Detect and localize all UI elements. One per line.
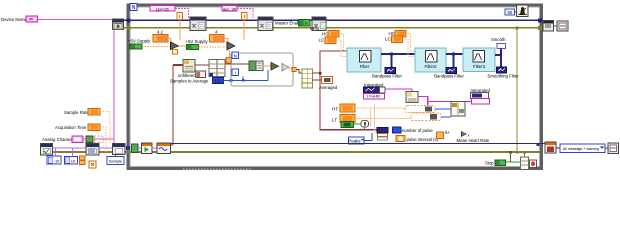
junction samples wire <box>242 79 245 82</box>
svg-text:10: 10 <box>71 158 76 163</box>
wire supply1 to select1 <box>142 46 171 48</box>
bottom border label dots <box>183 168 251 170</box>
wire error cluster (top) <box>124 27 541 29</box>
constant max value (blue box) <box>65 157 78 165</box>
svg-text:Filter3: Filter3 <box>473 64 486 69</box>
string constant 2 (pink) <box>222 6 237 12</box>
constant 4 (orange) <box>210 35 225 43</box>
function reciprocal glyphs <box>445 130 470 138</box>
svg-text:N: N <box>234 54 237 59</box>
constant LC2 (orange) <box>392 36 403 43</box>
wire sample clock up <box>115 155 117 157</box>
function bundle (rows) <box>302 69 313 88</box>
control Stop (green TF) <box>495 160 506 166</box>
svg-text:i: i <box>235 71 236 76</box>
constant 60 (orange) <box>437 132 444 139</box>
wire green to start <box>138 147 142 149</box>
wire maxmin to integrated2 <box>465 101 472 103</box>
wire ring to handler <box>605 147 608 149</box>
svg-text:number of pulse: number of pulse <box>402 128 433 133</box>
svg-text:Filter: Filter <box>360 64 370 69</box>
function add (triangle) <box>271 63 279 71</box>
wire VISA resource (top) <box>124 19 541 21</box>
svg-text:unfiltered: unfiltered <box>178 73 196 78</box>
svg-text:All message + warning: All message + warning <box>563 147 599 151</box>
loop i terminal (inner) <box>232 69 239 76</box>
wire stop to or <box>506 161 521 163</box>
wire task 1 <box>53 147 87 149</box>
wire task 2 <box>99 147 113 149</box>
indicator unfiltered <box>196 71 206 78</box>
function peak detect <box>406 92 418 103</box>
wire analog channel pink <box>83 138 114 140</box>
subVI VISA write 2 <box>258 17 273 31</box>
express VI Filter (bandpass 1) <box>347 48 381 72</box>
svg-text:Sample: Sample <box>109 158 123 163</box>
wire waveform horizontal to scaling icon <box>173 64 183 66</box>
wire samples branch in loop <box>267 70 269 80</box>
svg-text:132: 132 <box>214 78 222 83</box>
svg-text:Peaks: Peaks <box>348 138 361 143</box>
function divide (pale triangle) <box>282 64 289 72</box>
subVI simple error handler (bottom right) <box>608 143 619 154</box>
convert node 2 (orange) <box>242 13 248 41</box>
constant Sample Clock (blue box) <box>107 157 124 165</box>
loop N terminal (inner) <box>232 52 239 59</box>
wire waveform down to pulse section <box>320 73 377 130</box>
svg-text:Samples to Average: Samples to Average <box>170 79 209 84</box>
function array max min <box>451 102 465 117</box>
wire samples branch up <box>242 77 244 81</box>
subVI DAQmx create channel <box>41 144 53 156</box>
indicator Integrated graph <box>364 87 386 93</box>
constant HC1 (orange) <box>328 31 339 38</box>
constant LT (orange) <box>340 115 355 123</box>
conditional terminal (stop) <box>530 160 537 168</box>
control +5V Supply 2 (green) <box>187 45 199 50</box>
svg-text:LT: LT <box>332 118 337 123</box>
wire acquisition time <box>100 127 106 156</box>
string constant 1 (pink) <box>150 6 175 12</box>
subVI DAQmx read <box>157 143 171 154</box>
control +5V Supply 1 (green) <box>130 44 142 49</box>
wire scaling to index boxes <box>195 64 209 66</box>
for loop (averaging) <box>231 53 293 86</box>
function select 1 <box>171 42 179 50</box>
wire peak to maxmin <box>418 97 451 114</box>
subVI DAQmx start task <box>142 143 153 154</box>
tunnel VISA <box>127 19 131 23</box>
svg-text:pulse interval (s): pulse interval (s) <box>407 137 439 142</box>
wire pink down to create channel <box>113 139 115 144</box>
subVI DAQmx trigger <box>113 144 126 155</box>
wire magenta into peak node <box>411 89 413 92</box>
svg-text:1 FwHM: 1 FwHM <box>366 95 379 99</box>
function wait until next ms multiple <box>517 5 529 17</box>
svg-text:Smooth: Smooth <box>491 37 506 42</box>
indicator Integrated magenta box <box>364 94 385 100</box>
subVI DAQmx clear task (outside right) <box>545 142 556 153</box>
svg-text:+5V Supply: +5V Supply <box>128 39 151 44</box>
junction dynamic 2 <box>452 52 455 55</box>
tunnel inner loop out <box>292 67 296 71</box>
wire filter1 to filter2 (dynamic) <box>381 53 415 55</box>
wire compares to maxmin <box>435 109 451 117</box>
svg-text:I: I <box>244 14 245 19</box>
function compare greater (dashed orange) <box>405 106 435 113</box>
indicator Bandpass Filter 2 <box>446 68 457 74</box>
tunnel error left <box>127 26 131 30</box>
wire select2 output down <box>229 50 231 58</box>
wire device name vertical branch <box>113 20 115 139</box>
wire close to error handler <box>554 25 558 27</box>
constant units (orange dashed) <box>95 136 104 143</box>
loop count terminal N <box>130 4 137 12</box>
tunnel error right <box>538 26 542 30</box>
constant boolean array (green) <box>341 122 354 128</box>
wire subset to add <box>263 65 271 67</box>
svg-text:+5V Supply: +5V Supply <box>186 39 209 44</box>
wire select1 out <box>179 45 187 47</box>
constant 4.2 (orange) <box>153 35 168 43</box>
constant terminal config (green) <box>86 136 93 143</box>
wire task through border <box>125 147 132 149</box>
svg-text:N: N <box>132 5 136 11</box>
svg-text:Analog Channel: Analog Channel <box>42 137 73 142</box>
svg-text:acc_36: acc_36 <box>223 6 237 11</box>
wire start to read <box>152 147 157 149</box>
wire HT to compare1 <box>355 107 405 109</box>
control Samples to Average (I32 blue) <box>213 78 224 84</box>
wire to ring <box>556 147 560 149</box>
subVI initialize <box>113 19 124 30</box>
indicator pulse interval (orange) <box>396 136 405 142</box>
indicator smoothed <box>497 67 507 73</box>
express VI Filter2 (bandpass 2) <box>415 48 446 72</box>
svg-text:Averaged: Averaged <box>319 85 338 90</box>
wire pink const1 to write VI <box>175 9 189 19</box>
convert node 1 (orange) <box>177 13 183 41</box>
function select 2 <box>227 42 235 50</box>
function index array (pair) <box>209 60 225 77</box>
wire bundle to filter1 <box>313 51 348 73</box>
svg-text:HT: HT <box>332 107 338 112</box>
wire pink const2 to write VI2 <box>237 9 253 19</box>
wire down to indicator2 <box>453 54 455 68</box>
wire down to indicator1 <box>391 54 393 68</box>
function array subset (green icon) <box>249 61 263 71</box>
wire olive bottom long <box>52 151 540 153</box>
wire const2 to select2 <box>224 39 228 43</box>
function compare less (dashed orange) <box>411 113 441 121</box>
svg-text:x: x <box>468 133 470 138</box>
subVI DAQmx timing <box>86 144 99 156</box>
wire wait const <box>515 11 518 13</box>
subVI VISA close (outside loop) <box>543 21 554 32</box>
wire HC/LC to filter2 <box>403 34 416 57</box>
subVI error handler (top right) <box>557 21 568 31</box>
wire index to inner loop <box>225 63 249 65</box>
svg-text:LC: LC <box>319 38 326 43</box>
svg-text:Bandpass Filter: Bandpass Filter <box>434 74 464 79</box>
function boolean glyph <box>361 121 369 128</box>
wire sample rate <box>100 112 110 144</box>
indicator Averaged (orange) <box>322 77 333 84</box>
svg-text:-10: -10 <box>54 158 61 163</box>
function flatten (green icon) <box>132 144 139 153</box>
control Sample Rate (orange) <box>88 109 100 116</box>
tunnel task <box>126 146 130 150</box>
scale node (orange) <box>226 58 232 64</box>
constant min value (blue box) <box>47 156 61 164</box>
wire max to create <box>72 148 74 157</box>
wire read top to waveform <box>171 144 174 146</box>
constant All messages + warnings (ring) <box>560 144 605 153</box>
junction navy bottom <box>537 143 540 146</box>
svg-text:5+: 5+ <box>445 130 451 135</box>
svg-text:I: I <box>179 14 180 19</box>
wire filter2 to filter3 (dynamic) <box>446 53 463 55</box>
control Analog Channel (pink) <box>72 136 83 143</box>
while loop border <box>128 5 542 169</box>
constant Master Enable (green TF) <box>299 20 311 27</box>
constant smooth (purple) <box>497 44 506 49</box>
subVI VISA write 3 <box>312 17 326 31</box>
wire peaks to cluster <box>364 133 372 141</box>
svg-text:LC: LC <box>385 37 392 42</box>
svg-text:Acquisition Time: Acquisition Time <box>55 125 87 130</box>
wire navy bottom long <box>171 143 538 145</box>
svg-text:Stop: Stop <box>485 160 494 165</box>
svg-text:Mean Heart Rate: Mean Heart Rate <box>457 138 490 143</box>
wire LT to compare2 <box>355 118 411 120</box>
wire error vertical to stop logic <box>516 28 518 152</box>
wire bundle to averaged <box>313 79 322 81</box>
indicator Bandpass Filter 1 <box>385 68 396 74</box>
wire min to create <box>55 148 57 156</box>
wire supply2 to select2 <box>199 46 228 48</box>
svg-text:Device Name: Device Name <box>1 17 27 22</box>
svg-text:Filter2: Filter2 <box>425 64 438 69</box>
control Device Name (VISA resource) <box>26 16 38 22</box>
svg-text:4.2: 4.2 <box>157 30 163 35</box>
svg-text:50: 50 <box>507 10 512 15</box>
constant HT (orange) <box>340 104 355 112</box>
constant HC2 (orange) <box>395 30 406 37</box>
express VI Filter3 (smoothing) <box>463 48 495 72</box>
constant pair (orange small) <box>80 156 86 165</box>
svg-text:ppr=26: ppr=26 <box>156 6 169 11</box>
wire samples blue horizontal <box>224 79 269 81</box>
wire magenta main <box>385 88 412 90</box>
function compound or <box>521 157 529 170</box>
wire waveform up from DAQ read <box>172 65 174 145</box>
tunnel VISA right <box>538 19 542 23</box>
coercion dot select1 <box>173 50 178 55</box>
wire or to conditional <box>529 162 530 164</box>
function pulse measure cluster <box>377 128 388 141</box>
junction dynamic 1 <box>390 52 393 55</box>
constant wait ms (blue) <box>505 9 515 15</box>
svg-text:Smoothing Filter: Smoothing Filter <box>487 74 519 79</box>
indicator number of pulse <box>393 127 402 133</box>
function multiply terminal (orange glyph) <box>89 161 96 168</box>
wire filter3 out <box>495 54 501 56</box>
wire const1 to select1 <box>168 39 171 43</box>
wire device name horizontal <box>38 19 113 21</box>
subVI VISA write 1 <box>190 17 206 31</box>
svg-text:Bandpass Filter: Bandpass Filter <box>372 74 402 79</box>
icon waveform scaling <box>183 60 195 73</box>
indicator Integrated 2 <box>471 93 490 105</box>
constant LC1 (orange) <box>325 37 336 44</box>
control Acquisition Time (orange) <box>88 124 100 131</box>
wire tunnel to bundle <box>296 70 302 74</box>
constant Peaks ring <box>348 137 364 144</box>
svg-text:Sample Rate: Sample Rate <box>64 110 89 115</box>
wire HC/LC to filter1 <box>336 34 347 57</box>
svg-text:UPS: UPS <box>310 26 319 31</box>
wire to pulse cluster <box>354 124 365 130</box>
wire divide dotted to tunnel <box>289 68 292 70</box>
